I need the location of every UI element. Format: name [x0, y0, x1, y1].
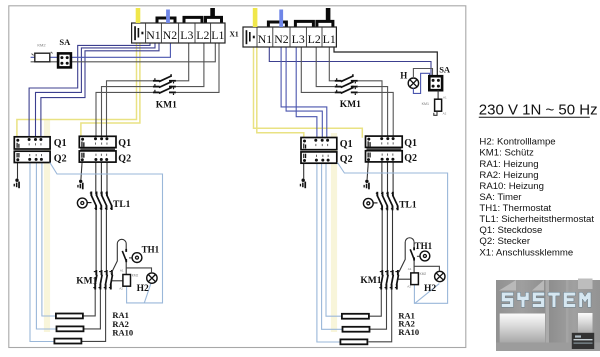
wire H lamp to SA-2 (gray)	[413, 69, 432, 79]
SA label circuit 1	[59, 37, 71, 47]
Q2 label 2a	[340, 154, 353, 165]
svg-text:KM1: KM1	[156, 101, 177, 111]
heating element RA2 (circuit 2)	[343, 327, 370, 332]
legend title 230 V 1N ~ 50 Hz	[479, 102, 598, 119]
svg-text:KM1: KM1	[360, 276, 381, 286]
coil KM1 (circuit 2, at SA)	[422, 96, 447, 116]
wire PE X1-2 to Q1 sockets (yellow)	[254, 27, 363, 138]
N supply stub (blue) circuit 1	[166, 10, 170, 24]
wire H lamp to SA-2 (blue)	[413, 73, 429, 93]
svg-text:SA: Timer: SA: Timer	[479, 192, 522, 203]
SA label circuit 2	[439, 65, 451, 75]
svg-text:Q2: Q2	[404, 153, 417, 164]
TL1 label circuit 1	[113, 200, 131, 210]
svg-text:TH1: Thermostat: TH1: Thermostat	[479, 203, 551, 214]
svg-text:Q2: Stecker: Q2: Stecker	[479, 236, 530, 247]
svg-text:RA2: Heizung: RA2: Heizung	[479, 170, 538, 181]
timer SA (circuit 1)	[58, 53, 71, 67]
N supply stub (blue) circuit 2	[279, 10, 283, 28]
wire PE yellow band circuit 2	[331, 133, 337, 332]
svg-text:H: H	[400, 71, 407, 81]
svg-text:KM1: KM1	[422, 102, 429, 106]
KM1 label (lower, circuit 2)	[360, 276, 381, 286]
svg-text:KM2: KM2	[37, 42, 46, 47]
L supply stub (black) circuit 2	[326, 8, 331, 22]
X1 label	[230, 30, 239, 39]
safety thermostat TL1 (circuit 2)	[363, 192, 397, 211]
svg-text:SA: SA	[439, 65, 451, 75]
Q1 label 2a	[340, 139, 353, 150]
wire TL1 to KM1 power contacts	[96, 210, 106, 271]
PE supply stub (yellow) circuit 1	[136, 8, 141, 23]
TH1 label circuit 2	[415, 241, 433, 251]
svg-text:A2: A2	[443, 112, 447, 116]
socket Q1 / plug Q2 pair 1a	[14, 137, 50, 163]
svg-text:Q1: Q1	[118, 138, 131, 149]
lamp H (circuit 2)	[408, 78, 418, 88]
Q2 label 1a	[54, 154, 67, 165]
wire TL1-2 to KM1-2 power contacts	[382, 210, 392, 270]
socket Q1 / plug Q2 pair 1b	[79, 136, 116, 162]
wire neutral loop circuit 2 (light blue)	[337, 162, 447, 303]
svg-text:X1: Anschlussklemme: X1: Anschlussklemme	[479, 247, 573, 258]
drawing frame	[9, 6, 466, 348]
H label circuit 2	[400, 71, 407, 81]
ground below Q2-2b	[364, 180, 370, 190]
svg-text:230 V 1N ~ 50 Hz: 230 V 1N ~ 50 Hz	[479, 102, 598, 119]
ground below Q2-2a	[300, 179, 306, 189]
KM1 label (upper, circuit 1)	[156, 101, 177, 111]
SYSTEM logo	[496, 279, 600, 352]
Q2 label 1b	[118, 153, 131, 164]
heating element RA10 (circuit 1)	[54, 339, 81, 344]
PE supply stub (yellow) circuit 2	[253, 8, 258, 27]
H2 label circuit 1	[137, 284, 149, 294]
contactor KM1 power contacts (circuit 2, bottom)	[379, 270, 398, 290]
svg-text:H2: Kontrolllampe: H2: Kontrolllampe	[479, 137, 555, 148]
ground below Q2-1b	[77, 180, 83, 190]
wire N2-2 to Q1 socket 2a (blue, 3 runs)	[281, 47, 327, 138]
terminal block X1 (circuit 1)	[132, 17, 225, 43]
svg-text:KM1: KM1	[340, 100, 361, 110]
wire N1-1 to Q1 plug (navy, 3 runs)	[29, 43, 159, 137]
svg-text:H2: H2	[137, 284, 149, 294]
TH1 label circuit 1	[142, 245, 160, 255]
wire Q2-2b to TL1-2	[382, 162, 393, 193]
heating element RA1 (circuit 1)	[56, 314, 83, 319]
RA2 label circuit 2	[398, 318, 415, 328]
heating element RA1 (circuit 2)	[342, 314, 369, 319]
KM1 label (lower, circuit 1)	[76, 277, 97, 287]
wire N1-2 to SA-2 (navy)	[269, 47, 431, 77]
wire SA-2 to coil KM1	[437, 90, 439, 99]
auxiliary contact KM2 (left of SA)	[32, 42, 53, 61]
RA1 label circuit 2	[398, 310, 415, 320]
wire N2-1 to SA (blue)	[31, 43, 171, 57]
ground below Q2-1a	[14, 179, 20, 189]
safety thermostat TL1 (circuit 1)	[77, 192, 111, 211]
svg-text:Q2: Q2	[54, 154, 67, 165]
wire PE X1-1 to Q1 sockets (yellow)	[17, 23, 140, 137]
svg-text:TL1: TL1	[113, 200, 131, 210]
svg-text:RA10: Heizung: RA10: Heizung	[479, 181, 544, 192]
wire Q2-2b ground lead	[367, 162, 368, 180]
svg-text:Q1: Q1	[404, 138, 417, 149]
Q1 label 1a	[54, 138, 67, 149]
svg-text:TL1: Sicherheitsthermostat: TL1: Sicherheitsthermostat	[479, 214, 594, 225]
svg-text:H2: H2	[424, 284, 436, 294]
legend component list	[479, 137, 594, 259]
wire L1-1 to SA via KM2 (gray)	[31, 43, 216, 62]
svg-text:Q1: Steckdose: Q1: Steckdose	[479, 225, 542, 236]
Q2 label 2b	[404, 153, 417, 164]
wire Q2-1b ground lead	[81, 162, 82, 180]
heating element RA10 (circuit 2)	[340, 339, 367, 344]
wire Q2-1b to TL1	[96, 162, 107, 192]
wire PE yellow band circuit 1	[44, 120, 50, 332]
timer SA (circuit 2)	[429, 76, 442, 90]
svg-text:A1: A1	[443, 96, 447, 100]
Q1 label 1b	[118, 138, 131, 149]
wire KM1-1 contacts to Q1 socket pair 2	[96, 81, 153, 137]
svg-text:TH1: TH1	[142, 245, 160, 255]
socket Q1 / plug Q2 pair 2b	[366, 136, 403, 162]
control cluster circuit 1: coil KM2, thermostat TH1 contact, lamp H2	[111, 239, 157, 290]
contactor KM1 power contacts (circuit 1, bottom)	[93, 270, 112, 290]
svg-text:RA10: RA10	[112, 327, 133, 337]
wire Q2-1a to heating elements (light blue)	[30, 162, 57, 341]
svg-text:KM1: KM1	[76, 277, 97, 287]
terminal block X1 (circuit 2)	[243, 21, 336, 47]
wire Q2-2a to heating elements (light blue)	[317, 163, 343, 342]
KM1 label (upper, circuit 2)	[340, 100, 361, 110]
wire KM1-2 aux to coil	[398, 278, 411, 280]
Q1 label 2b	[404, 138, 417, 149]
RA10 label circuit 2	[398, 327, 419, 337]
wire Q2-2a ground lead	[303, 163, 305, 179]
wire L1-2 to SA-2 (black)	[334, 47, 437, 77]
svg-text:Q1: Q1	[54, 138, 67, 149]
wire Q2-1a ground lead	[17, 162, 19, 178]
control cluster circuit 2: coil, TH1 contact, lamp H2	[399, 238, 445, 289]
socket Q1 / plug Q2 pair 2a	[301, 138, 337, 164]
wire L3/L2/L1-2 down to KM1-2 contacts	[301, 47, 334, 92]
svg-text:Q2: Q2	[118, 153, 131, 164]
RA2 label circuit 1	[112, 319, 129, 329]
L supply stub (black) circuit 1	[210, 8, 215, 18]
wire neutral loop circuit 1 (light blue)	[50, 163, 163, 303]
svg-text:X1: X1	[230, 30, 239, 39]
svg-text:Q1: Q1	[340, 139, 353, 150]
svg-text:RA10: RA10	[398, 327, 419, 337]
svg-text:Q2: Q2	[340, 154, 353, 165]
svg-text:KM1: Schütz: KM1: Schütz	[479, 148, 534, 159]
H2 label circuit 2	[424, 284, 436, 294]
contactor KM1 (circuit 1, main contacts)	[153, 74, 176, 95]
wire KM1-1 aux to coil	[112, 280, 123, 282]
contactor KM1 (circuit 2, main contacts)	[335, 74, 358, 95]
wire L3/L2/L1-1 down to KM1 contacts	[176, 43, 219, 92]
wire KM1-2 contacts to Q1 socket pair 2b	[358, 81, 394, 136]
svg-text:RA1: Heizung: RA1: Heizung	[479, 159, 538, 170]
svg-text:TH1: TH1	[415, 241, 433, 251]
svg-text:SA: SA	[59, 37, 71, 47]
TL1 label circuit 2	[399, 200, 417, 210]
wire KM1-1 contacts to RA heaters	[81, 289, 105, 342]
RA1 label circuit 1	[112, 310, 129, 320]
RA10 label circuit 1	[112, 327, 133, 337]
wire KM1-2 contacts to RA heaters	[368, 289, 391, 342]
heating element RA2 (circuit 1)	[57, 326, 84, 331]
svg-text:TL1: TL1	[399, 200, 417, 210]
